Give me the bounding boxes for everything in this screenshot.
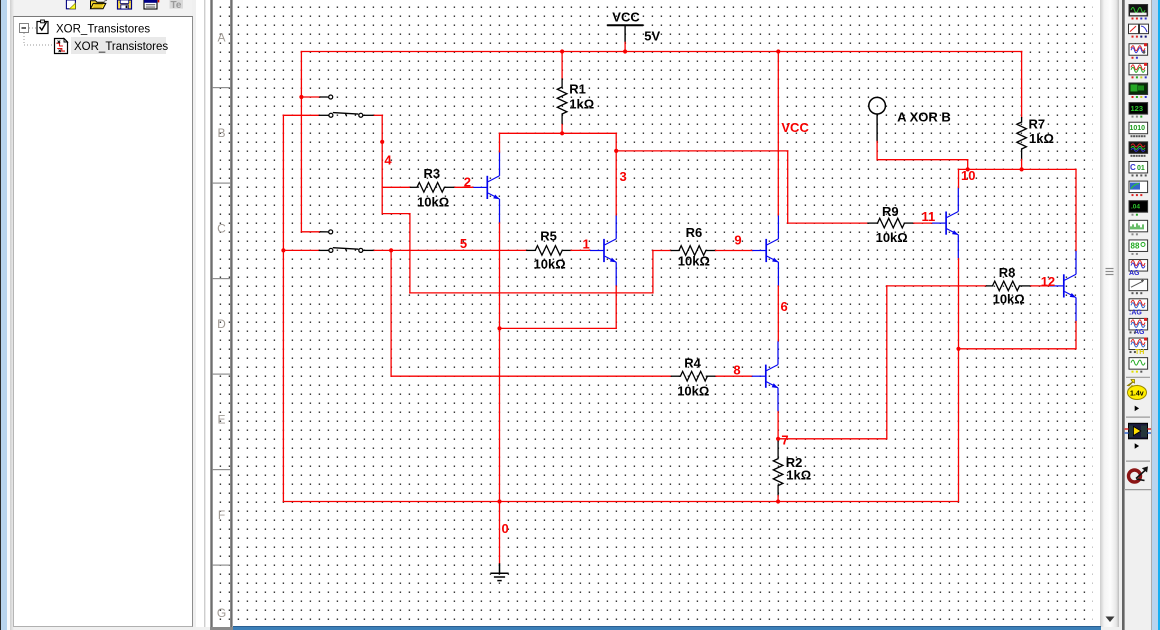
svg-text:D: D [217,317,226,331]
scrollbar down arrow [1106,617,1115,623]
right glass strip [1151,0,1152,630]
svg-text:R7: R7 [1029,117,1046,132]
current clamp icon (1.4v) [1128,380,1147,400]
ground symbol [499,502,501,564]
node junction net 7 [776,437,780,441]
resistor R7 1k (vertical) [1021,52,1023,118]
svg-text:10kΩ: 10kΩ [534,257,566,272]
resistor R6 10k [671,250,679,252]
node junction R2 bottom on ground rail [776,499,780,503]
wire Q2 emitter to rect bottom handled above; Q3 emitter / net 6 column [777,286,779,341]
svg-text:1010: 1010 [1130,125,1146,132]
svg-text:AG: AG [1129,270,1140,277]
svg-text:5: 5 [460,236,467,251]
instrument icon: network analyzer [1129,240,1148,255]
toolbar icon: save (floppy) [118,0,132,9]
resistor R4 10k [671,375,680,377]
wire rect1 right edge [615,133,617,215]
resistor R1 1k (vertical) [561,52,563,80]
instrument icon: tektronix scope 2 [1129,338,1148,357]
svg-text:R3: R3 [424,166,441,181]
left window glass strip [0,0,1,630]
svg-text:XOR_Transistores: XOR_Transistores [56,24,150,36]
switch S1 (input A) [319,114,328,116]
grid dots [211,0,1093,626]
wire net 4 detour to R6 [382,213,410,215]
svg-text:01: 01 [1137,165,1145,172]
node junction net 10 R7 tap [1020,167,1024,171]
svg-text:XOR_Transistores: XOR_Transistores [74,41,168,53]
wire net 3 horizontal [616,150,788,152]
wire net 5 down to R4 [390,250,392,376]
tree child schematic icon [55,39,68,54]
instrument icon: word generator [1129,122,1148,137]
svg-text:R6: R6 [686,225,703,240]
toolbar separator [1126,460,1150,462]
svg-text:88: 88 [1131,241,1140,250]
node junction S2 lower lead [281,248,285,252]
wire rect1 left edge / Q1 collector-emitter column [499,133,501,152]
svg-text:12: 12 [1041,274,1055,289]
design toolbox tree panel [13,16,193,627]
node junction net 4 [380,140,384,144]
svg-text:A XOR B: A XOR B [897,109,951,124]
instrument icon: 4ch oscilloscope [1129,83,1148,98]
svg-text:6: 6 [781,299,788,314]
svg-text:3: 3 [620,169,627,184]
svg-text:1kΩ: 1kΩ [569,97,594,112]
svg-text:VCC: VCC [781,120,809,135]
resistor R3 10k [411,186,418,188]
svg-text:10: 10 [961,168,975,183]
instrument icon: distortion analyzer [1129,201,1148,216]
instrument icon: spectrum analyzer [1129,220,1148,235]
wire probe to net 10 [876,141,878,159]
svg-text:A: A [217,31,225,45]
right window border [1122,0,1124,630]
svg-text:2: 2 [464,175,471,190]
svg-text:R8: R8 [999,265,1016,280]
wire ground column x=499 [499,328,501,501]
svg-text:R9: R9 [882,204,899,219]
instrument icon: IV analyzer [1129,181,1148,196]
svg-text:E: E [217,413,225,427]
svg-text:10kΩ: 10kΩ [677,383,709,398]
transistor Q6 (NPN) [1050,251,1076,321]
resistor R9 10k [868,222,878,224]
node junction net 5 [389,248,393,252]
output probe A XOR B [869,97,886,114]
svg-text:TH: TH [1135,349,1144,356]
svg-text:B: B [217,126,225,140]
toolbar icon: Te (disabled) [170,0,184,11]
node junction at S1 top throw [299,95,303,99]
svg-text:F: F [218,508,225,522]
svg-text:1: 1 [583,237,590,252]
node junction R1 bottom [560,131,564,135]
wire VCC vertical to Q3 [777,52,779,216]
instrument icon: agilent scope [1129,299,1148,317]
sheet border inner line [230,0,232,627]
svg-text:C: C [1130,163,1136,172]
instrument icon: agilent multimeter [1129,279,1148,294]
wire S2 lower throw lead [283,249,319,251]
wire net 7 to R8 riser [778,438,887,440]
svg-text:1kΩ: 1kΩ [1029,131,1054,146]
svg-text:10kΩ: 10kΩ [417,195,449,210]
node junction R1 top [560,49,564,53]
left panel toolbar [14,0,192,15]
instrument icon: logic converter [1129,161,1148,176]
wire S1 top throw lead [301,96,320,98]
instrument icon: probe settings [1129,358,1148,373]
switch S2 (input B) [319,249,328,251]
svg-text:11: 11 [922,209,936,224]
svg-text:10kΩ: 10kΩ [993,292,1025,307]
node junction rect1 bottom-left [497,326,501,330]
small arrow [1135,443,1139,449]
margin row divider ticks [213,87,231,88]
svg-text:7: 7 [781,432,788,447]
svg-text:Te: Te [171,0,182,11]
instrument icon: logic analyzer [1129,142,1148,157]
svg-text:8: 8 [733,363,740,378]
small arrow [1135,406,1139,412]
svg-text:10kΩ: 10kΩ [876,230,908,245]
transistor Q5 (NPN) [932,188,958,258]
wire net 11 [914,222,932,224]
instrument icon: oscilloscope [1129,63,1148,79]
wire ground-side vertical (x=283) [282,115,284,501]
LabVIEW instrument icon [1125,423,1152,439]
toolbar icon: open file [91,0,108,9]
tree expand box [20,24,29,33]
svg-text:5V: 5V [644,28,660,43]
wire net 12 [1031,285,1050,287]
bottom scrollbar strip [210,627,233,630]
sheet border outer line [210,0,212,627]
svg-text:1.4v: 1.4v [1130,391,1144,398]
wire Q5/Q6 emitter return [958,258,960,501]
right instrument toolbar icons [1124,0,1152,500]
design toolbox tree [14,17,192,77]
canvas window inner edge [204,0,205,627]
svg-text:R1: R1 [569,82,586,97]
transistor Q1 (NPN) [473,152,499,222]
wire net 7: Q4 emitter down [777,411,779,439]
instrument icon: multimeter [1129,5,1148,20]
svg-text:0: 0 [502,521,509,536]
canvas area base [196,0,1101,627]
toolbar icon: print report [144,0,159,9]
tree dotted connectors [29,27,36,29]
resistor R5 10k [527,249,535,251]
VCC power symbol [607,24,643,26]
svg-text:10kΩ: 10kΩ [678,254,710,269]
wire Q6 emitter loop [959,348,1077,350]
wire net 8 [716,375,752,377]
instrument icon: frequency counter [1129,103,1148,118]
wire VCC top rail [301,51,1021,53]
resistor R2 1k (vertical) [777,439,779,442]
wire ground rail [283,501,958,503]
node junction ground tap [497,499,501,503]
instrument icon: agilent func gen [1129,260,1148,278]
svg-text:.04: .04 [1131,204,1140,211]
vertical scrollbar grip [1100,0,1120,630]
svg-text:123: 123 [1131,104,1144,113]
toolbar bottom border [1124,489,1152,491]
wire net 4 from S1 pole [374,114,382,116]
toolbar icon: new design [66,0,75,9]
svg-text:R4: R4 [684,356,701,371]
wire VCC drop to switch throws (x=301) [300,52,302,232]
wire net 4 to R3 [382,186,410,188]
wire rect1 top (net between R1 and Q1/Q2 collectors) [500,132,617,134]
instrument icon: function generator [1129,24,1149,38]
tree root checkbox icon [37,20,48,34]
wire rect1 bottom [500,327,617,329]
wire Q6 collector up to net 10 [1075,169,1077,251]
toolbar separator [1126,416,1150,418]
wire net 5 from S2 pole [374,249,527,251]
node junction net 10 probe tap [966,167,970,171]
instrument icon: tektronix scope 1 [1129,318,1148,336]
right instrument toolbar [1124,0,1152,490]
svg-text:1kΩ: 1kΩ [786,468,811,483]
current probe icon [1129,468,1148,483]
instrument icon: wattmeter [1129,43,1148,59]
wire net 10 horizontal [959,168,1077,170]
transistor Q2 (NPN) [590,216,616,286]
toolbar separator [1126,376,1150,378]
node junction emitter return [956,347,960,351]
wire net 1 [571,249,590,251]
svg-text:R5: R5 [540,229,557,244]
node junction VCC rail tap [776,49,780,53]
node junction net 3 tap [614,149,618,153]
svg-text:G: G [217,606,226,620]
transistor Q4 (NPN) [752,341,778,411]
svg-text::AG: :AG [1129,309,1142,316]
transistor Q3 (NPN) [752,216,778,286]
svg-text:9: 9 [734,232,741,247]
wire S1 pole-side lead [283,114,319,116]
resistor R8 10k [986,285,992,287]
wire net 9 [716,250,753,252]
svg-text:4: 4 [384,152,392,167]
svg-text:VCC: VCC [612,10,640,25]
vertical scrollbar [1100,0,1119,627]
tree child selected label [71,37,166,54]
wire net 2 [455,186,473,188]
wire S2 top throw lead [301,231,320,233]
svg-text:C: C [217,222,226,236]
node junction VCC stem [623,49,627,53]
